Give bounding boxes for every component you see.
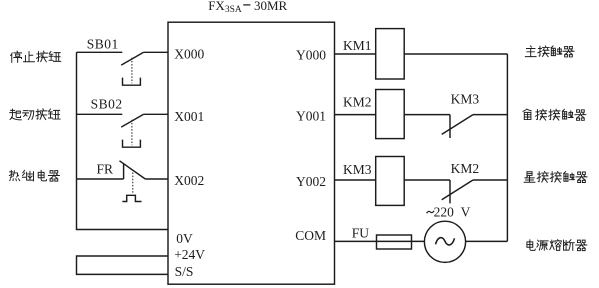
svg-text:S/S: S/S: [175, 264, 194, 279]
svg-text:KM2: KM2: [343, 95, 372, 110]
svg-text:KM1: KM1: [343, 38, 372, 53]
svg-text:KM3: KM3: [451, 91, 480, 106]
svg-text:SB02: SB02: [91, 97, 123, 112]
svg-text:COM: COM: [295, 228, 326, 243]
svg-text:X000: X000: [174, 47, 204, 62]
svg-text:FR: FR: [97, 162, 114, 177]
svg-text:KM2: KM2: [451, 161, 480, 176]
svg-text:Y002: Y002: [296, 174, 326, 189]
svg-text:Y000: Y000: [296, 48, 326, 63]
svg-text:Y001: Y001: [296, 108, 326, 123]
svg-text:KM3: KM3: [343, 162, 372, 177]
svg-text:220 V: 220 V: [434, 205, 471, 220]
svg-text:0V: 0V: [176, 231, 193, 246]
svg-text:SB01: SB01: [87, 37, 119, 52]
svg-text:FU: FU: [352, 226, 370, 241]
svg-text:X001: X001: [174, 109, 204, 124]
svg-text:X002: X002: [174, 173, 204, 188]
svg-text:+24V: +24V: [174, 247, 205, 262]
